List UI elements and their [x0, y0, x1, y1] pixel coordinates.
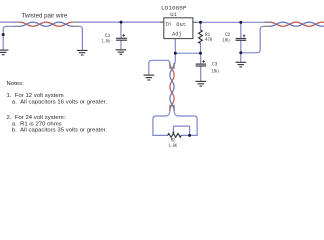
svg-text:470: 470 — [205, 36, 213, 43]
svg-text:a. All capacitors 16 volts or: a. All capacitors 16 volts or greater. — [12, 99, 108, 105]
svg-text:Notes:: Notes: — [7, 81, 25, 87]
svg-text:1.0K: 1.0K — [169, 142, 178, 149]
svg-text:1. For 12 volt system: 1. For 12 volt system — [7, 93, 64, 99]
svg-text:Adj: Adj — [172, 30, 182, 37]
svg-text:Out: Out — [176, 21, 186, 28]
svg-text:In: In — [165, 20, 171, 27]
svg-text:C3: C3 — [212, 60, 218, 67]
svg-text:1.0u: 1.0u — [102, 37, 111, 44]
svg-text:2. For 24 volt system:: 2. For 24 volt system: — [7, 115, 66, 121]
svg-text:a. R1 is 270 ohms: a. R1 is 270 ohms — [12, 121, 62, 127]
svg-text:10u: 10u — [222, 37, 229, 44]
svg-text:Twisted pair wire: Twisted pair wire — [22, 13, 68, 20]
svg-text:10u: 10u — [211, 68, 218, 75]
svg-text:b. All capacitors 35 volts or: b. All capacitors 35 volts or greater. — [12, 128, 108, 134]
svg-text:U1: U1 — [170, 11, 177, 18]
